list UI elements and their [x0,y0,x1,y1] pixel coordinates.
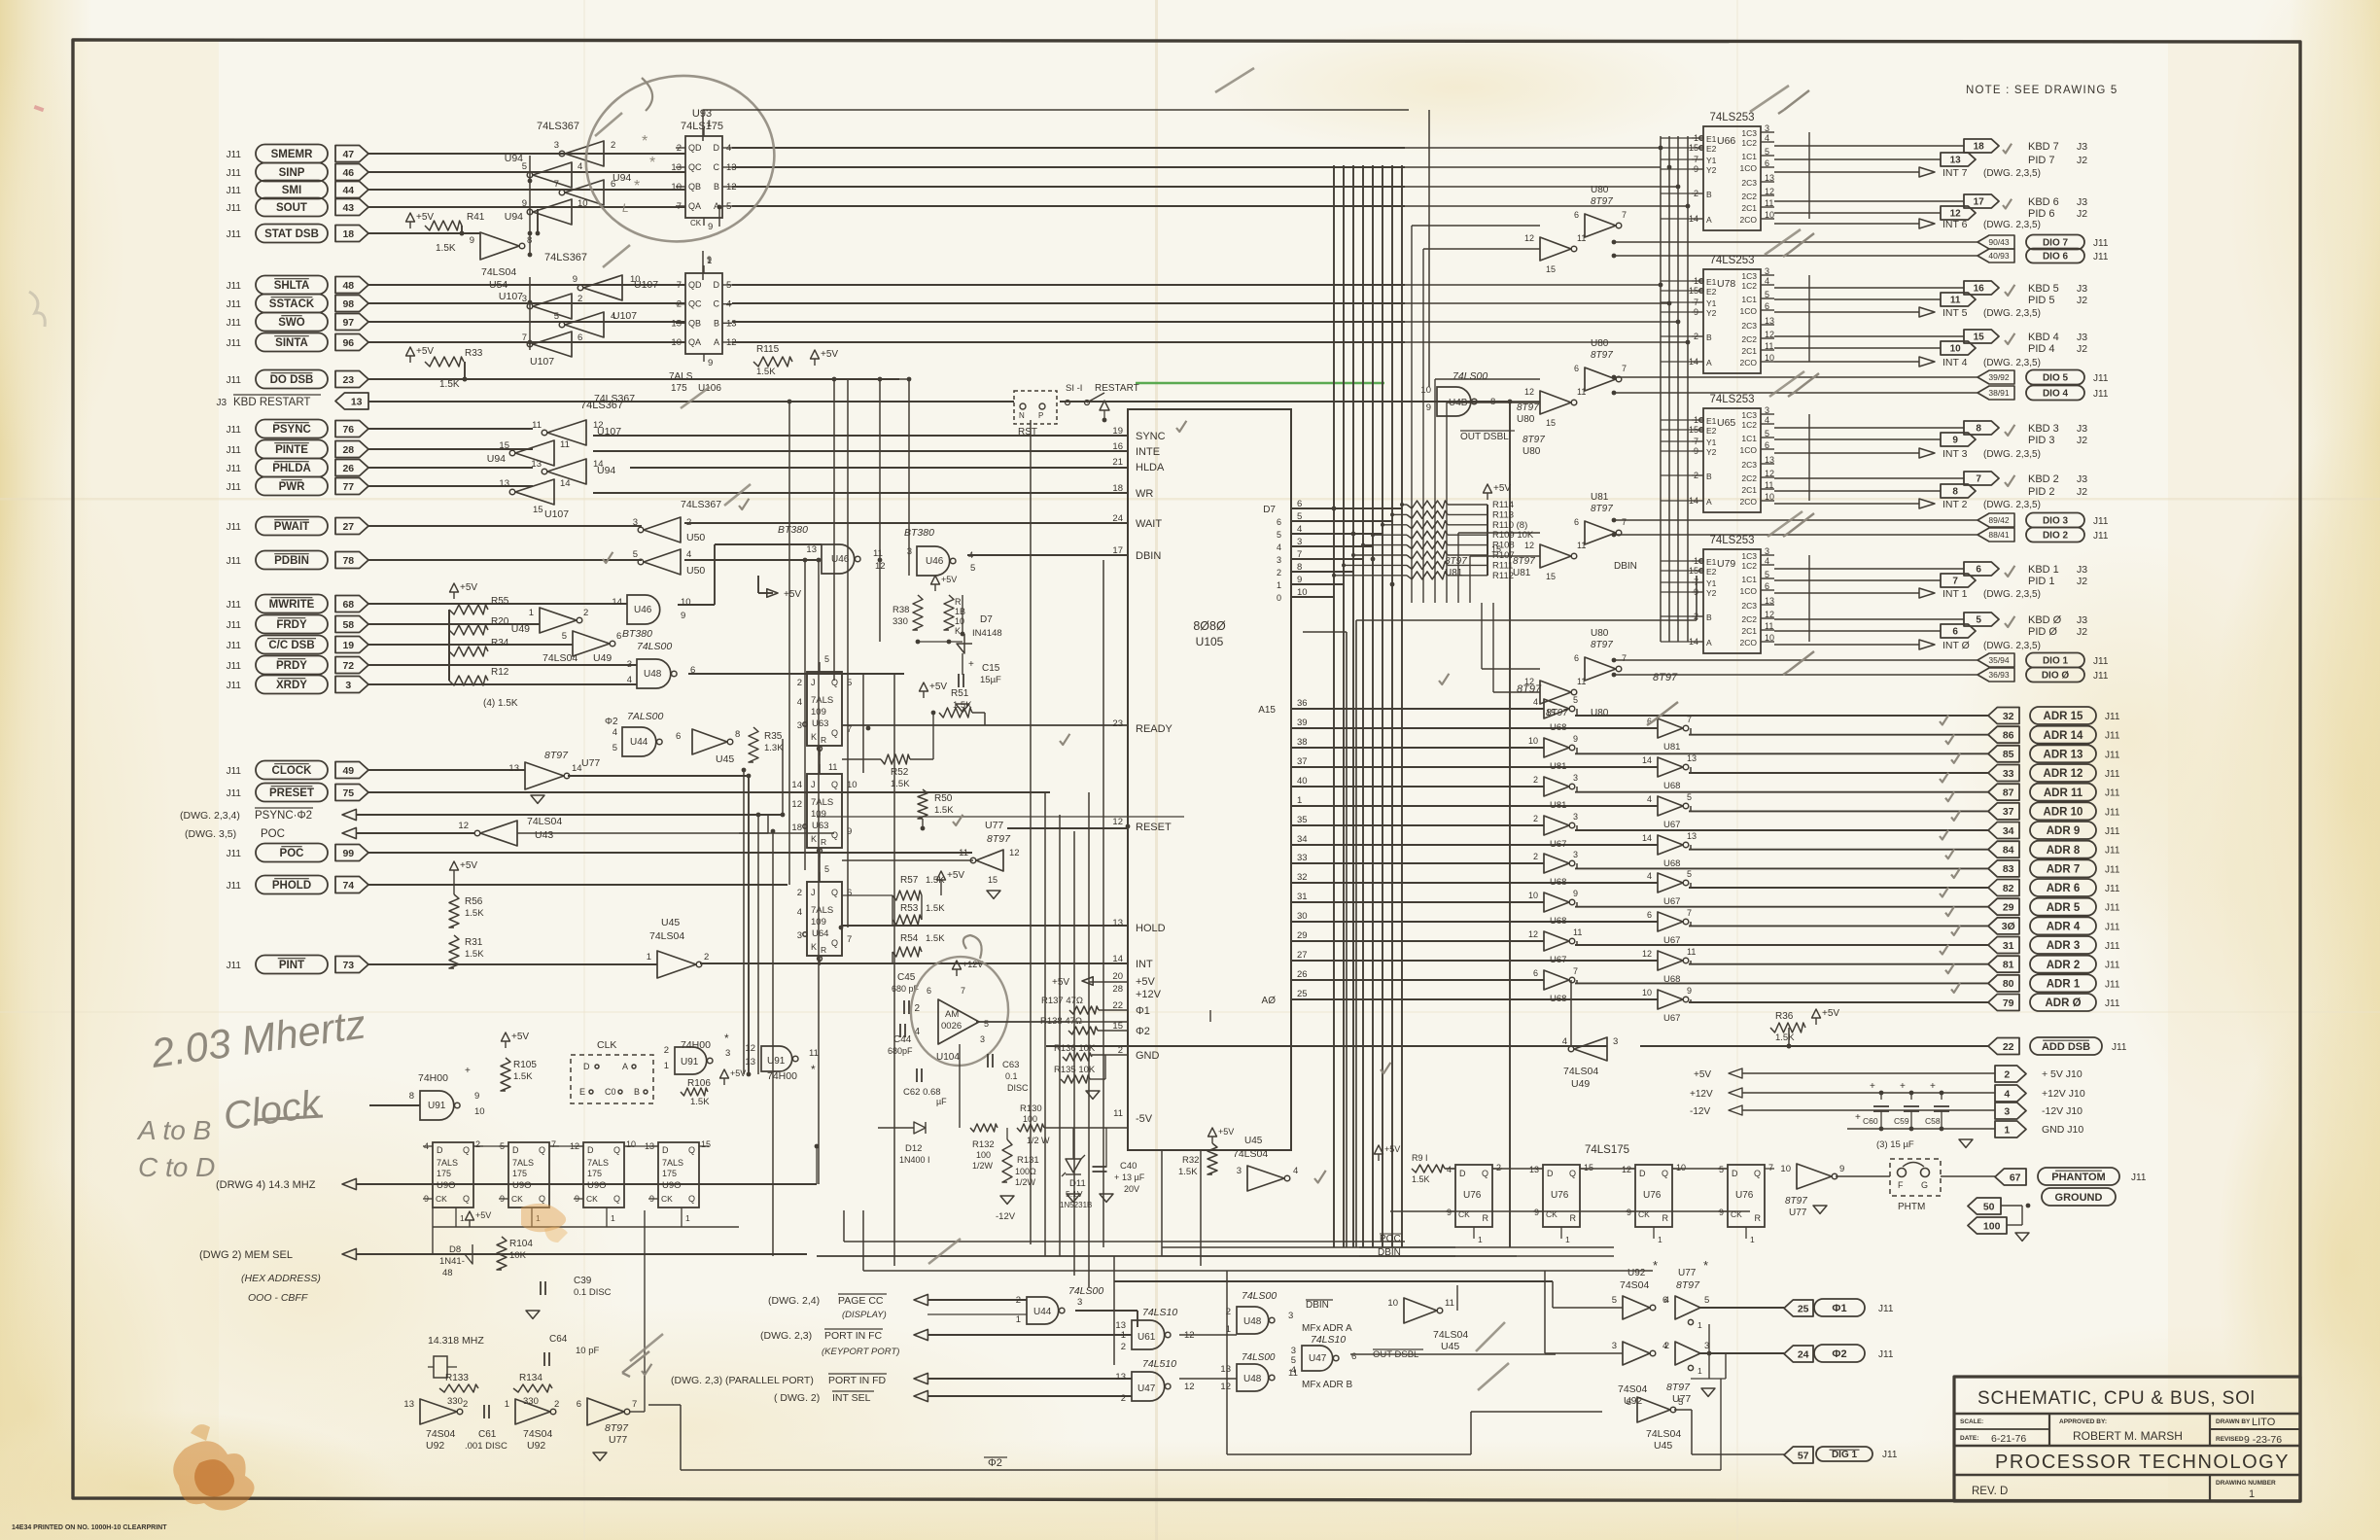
svg-text:3: 3 [1277,555,1281,565]
svg-text:10: 10 [1528,736,1538,746]
svg-text:6: 6 [577,332,582,343]
svg-text:F: F [1898,1180,1904,1190]
svg-text:R: R [821,735,826,745]
svg-text:82: 82 [2003,883,2014,894]
svg-text:1C1: 1C1 [1741,575,1757,584]
svg-text:(DWG. 2,3): (DWG. 2,3) [760,1330,812,1342]
svg-text:U77: U77 [1678,1268,1697,1278]
svg-text:7: 7 [1687,908,1692,918]
svg-text:KBD RESTART: KBD RESTART [233,397,310,408]
svg-text:33: 33 [2003,768,2014,780]
svg-text:2: 2 [797,888,802,898]
svg-text:R31: R31 [465,937,483,948]
svg-text:R114: R114 [1492,500,1514,510]
svg-text:2C2: 2C2 [1741,473,1757,483]
svg-text:15: 15 [701,1139,711,1149]
svg-text:88/41: 88/41 [1988,530,2010,540]
svg-text:J11: J11 [227,881,242,892]
svg-text:U107: U107 [612,310,637,322]
svg-text:U61: U61 [1137,1332,1156,1343]
svg-text:J: J [811,780,816,789]
svg-text:74LS253: 74LS253 [1709,112,1754,123]
svg-text:J11: J11 [227,600,242,611]
svg-text:2C3: 2C3 [1741,460,1757,470]
svg-text:A: A [622,1062,628,1071]
svg-text:74S04: 74S04 [523,1428,553,1440]
svg-text:4: 4 [1647,794,1652,804]
svg-text:27: 27 [342,521,354,533]
svg-text:4: 4 [797,907,802,918]
svg-text:U94: U94 [505,211,523,223]
svg-text:U92: U92 [527,1440,545,1452]
svg-text:9: 9 [707,255,712,264]
svg-text:NOTE : SEE DRAWING 5: NOTE : SEE DRAWING 5 [1966,85,2117,96]
svg-text:PHTM: PHTM [1898,1202,1925,1212]
svg-text:28: 28 [342,444,354,456]
svg-text:ADR 12: ADR 12 [2044,768,2083,780]
svg-text:B: B [1706,612,1712,622]
svg-text:Q: Q [1569,1169,1576,1178]
svg-text:36: 36 [1297,698,1308,709]
svg-text:J3: J3 [2077,283,2087,295]
svg-text:R106: R106 [687,1078,711,1089]
svg-text:J11: J11 [2105,998,2120,1009]
svg-text:2: 2 [611,140,615,151]
svg-text:Φ2: Φ2 [1136,1026,1150,1037]
svg-text:1: 1 [1277,580,1281,590]
svg-text:J3: J3 [2077,196,2087,208]
svg-text:B: B [714,182,719,192]
svg-text:J2: J2 [2077,626,2087,638]
svg-text:5: 5 [984,1019,989,1029]
svg-text:*: * [1703,1258,1708,1273]
svg-text:2C2: 2C2 [1741,334,1757,344]
svg-text:11: 11 [1577,233,1586,243]
svg-text:J11: J11 [227,788,242,799]
svg-text:8T97: 8T97 [1785,1196,1807,1207]
svg-text:10: 10 [1642,988,1652,997]
svg-text:20V: 20V [1124,1184,1139,1194]
svg-text:J11: J11 [227,229,242,240]
svg-text:24: 24 [1112,513,1123,524]
svg-text:PSYNC·Φ2: PSYNC·Φ2 [255,810,312,822]
svg-text:35/94: 35/94 [1988,655,2010,665]
svg-text:1: 1 [664,1061,669,1071]
svg-text:SSTACK: SSTACK [269,298,315,310]
svg-text:74LS10: 74LS10 [1142,1307,1177,1318]
svg-text:2: 2 [1664,1341,1669,1351]
svg-text:2: 2 [797,678,802,688]
svg-text:C0: C0 [605,1087,616,1097]
svg-text:Q: Q [1482,1169,1488,1178]
svg-text:QA: QA [688,201,701,211]
svg-text:3: 3 [2004,1105,2010,1117]
svg-text:+5V: +5V [1493,483,1511,494]
svg-text:9: 9 [1426,402,1431,413]
svg-text:4: 4 [2004,1088,2010,1100]
svg-text:J11: J11 [2105,788,2120,799]
svg-text:D: D [587,1145,594,1155]
svg-text:14: 14 [1642,833,1652,843]
svg-text:U46: U46 [634,605,652,615]
svg-text:3: 3 [1573,773,1578,783]
svg-text:7ALS: 7ALS [669,371,693,382]
svg-text:12: 12 [1112,817,1123,827]
svg-text:+: + [1870,1081,1875,1092]
svg-text:RESET: RESET [1136,822,1172,833]
svg-text:U94: U94 [597,465,615,476]
svg-text:1CO: 1CO [1740,586,1758,596]
svg-text:J11: J11 [227,961,242,971]
svg-text:C58: C58 [1925,1116,1941,1126]
svg-text:R36: R36 [1775,1011,1794,1022]
svg-text:PID 1: PID 1 [2028,576,2055,587]
svg-text:J2: J2 [2077,155,2087,166]
svg-text:U45: U45 [1441,1341,1459,1352]
svg-text:G: G [1921,1180,1928,1190]
svg-text:12: 12 [745,1043,755,1054]
svg-text:2: 2 [1016,1295,1021,1306]
svg-text:1: 1 [2004,1124,2010,1136]
svg-text:R113: R113 [1492,509,1514,520]
svg-text:STAT DSB: STAT DSB [264,228,319,240]
svg-text:QB: QB [688,318,701,328]
svg-text:R110 (8): R110 (8) [1492,520,1527,531]
svg-text:C40: C40 [1120,1161,1137,1172]
svg-text:10: 10 [1676,1163,1686,1172]
svg-text:U81: U81 [1591,492,1609,503]
svg-text:U50: U50 [686,532,705,543]
svg-text:ADR 14: ADR 14 [2044,730,2084,742]
svg-text:INT Ø: INT Ø [1942,640,1970,651]
svg-text:CK: CK [436,1194,447,1204]
svg-text:U107: U107 [544,508,569,520]
svg-text:49: 49 [342,765,354,777]
svg-text:PID 5: PID 5 [2028,295,2055,306]
svg-text:26: 26 [1297,969,1308,980]
svg-text:R109 10K: R109 10K [1492,530,1534,541]
svg-text:33: 33 [1297,853,1308,863]
svg-text:U91: U91 [428,1101,446,1111]
svg-text:C to D: C to D [138,1152,215,1182]
svg-text:J11: J11 [2105,846,2120,857]
svg-text:+5V: +5V [929,682,947,692]
svg-text:175: 175 [671,383,687,394]
svg-text:26: 26 [342,463,354,474]
svg-text:13: 13 [1115,1372,1126,1382]
svg-text:74H00: 74H00 [418,1072,448,1084]
svg-text:0.1: 0.1 [1005,1071,1018,1081]
svg-text:0: 0 [1277,593,1281,603]
svg-text:PHANTOM: PHANTOM [2051,1172,2105,1183]
svg-text:8T97: 8T97 [1517,402,1539,413]
svg-text:SMI: SMI [282,185,301,196]
svg-text:74LS00: 74LS00 [1242,1290,1277,1302]
svg-text:7: 7 [1622,653,1627,663]
svg-text:OOO - CBFF: OOO - CBFF [248,1292,308,1304]
svg-text:2C3: 2C3 [1741,178,1757,188]
svg-text:J11: J11 [227,168,242,179]
svg-text:PORT IN FC: PORT IN FC [824,1330,883,1342]
svg-text:2: 2 [1533,775,1538,785]
svg-text:OUT DSBL: OUT DSBL [1460,432,1509,442]
svg-text:(DWG. 2,3,5): (DWG. 2,3,5) [1983,220,2041,230]
svg-text:5: 5 [1704,1295,1709,1306]
svg-text:R: R [1755,1213,1762,1223]
svg-text:E2: E2 [1706,144,1717,154]
svg-text:74LS175: 74LS175 [681,121,723,132]
svg-text:(DWG. 3,5): (DWG. 3,5) [185,828,236,840]
svg-text:4: 4 [1277,542,1281,552]
svg-text:7ALS: 7ALS [512,1158,534,1168]
svg-text:0.1 DISC: 0.1 DISC [574,1287,612,1298]
svg-text:K: K [811,834,817,844]
svg-text:PINT: PINT [279,960,304,971]
svg-text:U77: U77 [985,820,1003,831]
svg-text:6: 6 [1574,653,1579,663]
svg-text:11: 11 [560,439,570,450]
svg-text:19: 19 [1112,426,1123,437]
svg-text:PSYNC: PSYNC [272,424,311,436]
svg-text:5: 5 [1277,530,1281,540]
svg-text:8T97: 8T97 [987,833,1011,845]
svg-text:1: 1 [1750,1235,1755,1244]
svg-text:C: C [714,299,720,309]
svg-text:1.5K: 1.5K [690,1097,710,1107]
svg-text:+5V: +5V [460,860,477,871]
svg-text:PRDY: PRDY [276,660,307,672]
svg-text:7ALS: 7ALS [811,905,833,916]
svg-text:U67: U67 [1663,820,1680,830]
svg-text:PROCESSOR TECHNOLOGY: PROCESSOR TECHNOLOGY [1995,1452,2290,1473]
svg-text:K: K [811,942,817,952]
svg-text:1C1: 1C1 [1741,152,1757,161]
svg-text:Q: Q [831,830,838,840]
svg-text:+5V: +5V [416,212,434,223]
svg-text:1.5K: 1.5K [465,949,484,960]
svg-text:100Ω: 100Ω [1015,1167,1036,1176]
svg-text:+: + [1855,1112,1861,1123]
svg-text:Q: Q [831,780,838,789]
svg-text:38/91: 38/91 [1988,388,2010,398]
svg-text:13: 13 [508,763,519,774]
svg-text:U68: U68 [1663,974,1680,985]
svg-text:J11: J11 [227,299,242,310]
svg-text:2: 2 [475,1139,480,1149]
svg-text:29: 29 [1297,930,1308,941]
svg-text:5: 5 [1687,869,1692,879]
svg-text:(4) 1.5K: (4) 1.5K [483,698,518,709]
svg-text:J3: J3 [2077,614,2087,626]
svg-text:GND: GND [1136,1050,1160,1062]
svg-text:U9O: U9O [662,1180,682,1191]
svg-text:14.318 MHZ: 14.318 MHZ [428,1335,484,1347]
svg-text:14: 14 [1112,954,1123,964]
svg-text:11: 11 [809,1048,819,1059]
svg-text:+5V: +5V [1822,1008,1839,1019]
svg-text:QC: QC [688,299,702,309]
svg-text:-12V J10: -12V J10 [2042,1105,2082,1117]
svg-text:J11: J11 [2105,884,2120,894]
svg-text:48: 48 [342,280,354,292]
svg-text:DIO 4: DIO 4 [2043,389,2069,400]
svg-text:PHLDA: PHLDA [272,463,311,474]
svg-text:PWAIT: PWAIT [274,521,309,533]
svg-text:U68: U68 [1550,877,1566,888]
svg-text:25: 25 [1297,989,1308,999]
svg-text:U67: U67 [1663,935,1680,946]
svg-text:7: 7 [551,1139,556,1149]
svg-text:81: 81 [2003,960,2014,971]
svg-text:ADR 11: ADR 11 [2044,787,2083,799]
svg-text:D: D [662,1145,669,1155]
svg-text:18: 18 [342,228,354,240]
svg-text:R131: R131 [1017,1155,1039,1166]
svg-text:A15: A15 [1258,705,1276,716]
svg-text:R57: R57 [900,875,919,886]
svg-text:1: 1 [1297,795,1302,806]
svg-text:J11: J11 [227,641,242,651]
svg-text:1: 1 [1697,1366,1702,1376]
svg-text:J11: J11 [227,445,242,456]
svg-text:C15: C15 [982,663,1000,674]
svg-text:+5V: +5V [947,870,964,881]
svg-text:J3: J3 [2077,473,2087,485]
svg-text:43: 43 [342,202,354,214]
svg-text:+: + [465,1066,471,1076]
svg-text:3: 3 [725,1048,730,1059]
svg-text:2CO: 2CO [1740,358,1758,367]
svg-text:R50: R50 [934,793,953,804]
svg-text:1: 1 [1565,1235,1570,1244]
svg-text:INT 2: INT 2 [1942,499,1968,510]
svg-text:11: 11 [828,762,837,772]
svg-text:U67: U67 [1550,955,1566,965]
svg-text:11: 11 [1577,387,1586,397]
svg-text:U49: U49 [511,623,530,635]
svg-text:U9O: U9O [437,1180,456,1191]
svg-text:ADR 6: ADR 6 [2047,883,2081,894]
svg-text:17: 17 [1112,545,1123,556]
svg-text:2CO: 2CO [1740,497,1758,507]
svg-text:34: 34 [2003,825,2014,837]
svg-text:9: 9 [1719,1207,1724,1217]
svg-text:7ALS: 7ALS [811,695,833,706]
svg-text:J11: J11 [2105,807,2120,818]
svg-text:12: 12 [1524,387,1534,397]
svg-text:DIG 1: DIG 1 [1832,1450,1858,1460]
svg-text:Φ2: Φ2 [1832,1348,1846,1360]
svg-text:44: 44 [342,185,354,196]
svg-text:D: D [1732,1169,1738,1178]
svg-text:CK: CK [690,219,702,227]
svg-text:U47: U47 [1309,1353,1327,1364]
svg-text:ADR 7: ADR 7 [2047,864,2081,876]
svg-text:1C2: 1C2 [1741,138,1757,148]
svg-text:10: 10 [474,1106,485,1117]
svg-text:J11: J11 [1878,1304,1894,1314]
svg-text:HLDA: HLDA [1136,462,1165,473]
svg-text:15: 15 [1584,1163,1593,1172]
svg-text:15: 15 [1974,332,1985,343]
svg-text:73: 73 [342,960,354,971]
svg-text:+5V: +5V [941,575,957,584]
svg-text:J11: J11 [227,425,242,436]
svg-text:J11: J11 [2105,864,2120,875]
svg-text:INT: INT [1136,959,1153,970]
svg-text:J11: J11 [2105,979,2120,990]
svg-text:7ALS: 7ALS [811,797,833,808]
svg-text:U81: U81 [1513,568,1531,578]
svg-text:D: D [714,280,720,290]
svg-text:1: 1 [707,119,712,129]
svg-text:J2: J2 [2077,435,2087,446]
svg-text:C62 0.68: C62 0.68 [903,1087,941,1098]
svg-text:9: 9 [1627,1207,1631,1217]
svg-text:J11: J11 [2093,656,2109,667]
svg-text:(3) 15 µF: (3) 15 µF [1876,1139,1914,1150]
svg-text:9: 9 [1839,1164,1844,1174]
svg-text:U91: U91 [767,1056,786,1067]
svg-text:35: 35 [1297,815,1308,825]
svg-text:POC: POC [1380,1234,1401,1244]
svg-text:3: 3 [1573,812,1578,822]
svg-text:90/43: 90/43 [1988,237,2010,247]
svg-text:PHOLD: PHOLD [272,880,311,892]
svg-text:J11: J11 [2105,941,2120,952]
svg-text:2C3: 2C3 [1741,321,1757,331]
svg-text:2: 2 [577,294,582,304]
svg-text:7: 7 [1622,517,1627,527]
svg-text:U81: U81 [1663,742,1680,752]
svg-text:12: 12 [1524,233,1534,243]
svg-text:U48: U48 [1243,1374,1262,1384]
svg-text:10: 10 [1950,344,1962,355]
svg-text:0026: 0026 [941,1021,962,1032]
svg-text:6: 6 [1574,517,1579,527]
svg-text:A: A [1706,638,1712,647]
svg-text:ADR 4: ADR 4 [2047,922,2081,933]
svg-text:SINTA: SINTA [275,337,308,349]
svg-text:12: 12 [791,799,802,810]
svg-text:8Ø8Ø: 8Ø8Ø [1193,619,1226,633]
svg-text:1.5K: 1.5K [1775,1032,1795,1043]
svg-text:4: 4 [686,549,691,560]
svg-text:U80: U80 [1591,708,1609,718]
svg-text:1: 1 [505,1399,509,1410]
svg-text:J11: J11 [2093,373,2109,384]
svg-text:12: 12 [1642,949,1652,959]
svg-text:+: + [1930,1081,1936,1092]
svg-text:11: 11 [1573,927,1582,937]
svg-text:J11: J11 [2093,389,2109,400]
svg-text:38: 38 [1297,737,1308,748]
svg-text:DIO Ø: DIO Ø [2042,671,2070,682]
svg-text:5: 5 [554,311,559,322]
svg-text:KBD 5: KBD 5 [2028,283,2059,295]
svg-text:2: 2 [1533,852,1538,861]
svg-text:Y1: Y1 [1706,298,1717,308]
svg-text:PID 2: PID 2 [2028,486,2055,498]
svg-text:U92: U92 [426,1440,444,1452]
svg-text:Q: Q [539,1194,545,1204]
svg-text:1: 1 [1016,1314,1021,1325]
svg-text:(HEX ADDRESS): (HEX ADDRESS) [241,1273,321,1284]
svg-text:7: 7 [1622,364,1627,373]
svg-text:PID Ø: PID Ø [2028,626,2057,638]
svg-text:DRAWING NUMBER: DRAWING NUMBER [2216,1480,2276,1487]
svg-text:37: 37 [1297,756,1308,767]
